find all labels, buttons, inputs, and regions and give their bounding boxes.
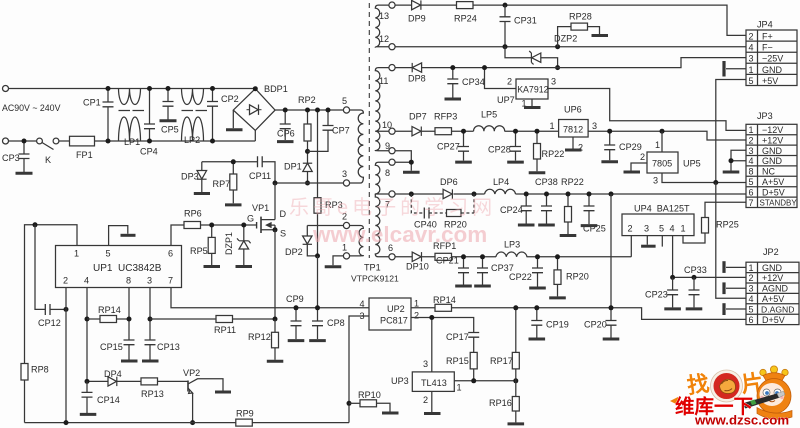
svg-text:5: 5: [659, 224, 664, 234]
wire line 6: [395, 256, 631, 258]
svg-text:BDP1: BDP1: [264, 84, 288, 94]
wire JP3 pin7 standby to RP25: [705, 202, 746, 217]
diode DP10: [406, 252, 429, 271]
ground JP2 pin1 chassis bar: [724, 261, 746, 273]
svg-text:CP15: CP15: [100, 342, 123, 352]
svg-text:RP12: RP12: [248, 332, 271, 342]
svg-text:1: 1: [749, 263, 754, 273]
svg-text:A+5V: A+5V: [762, 294, 784, 304]
wire line 7 D+5V: [395, 193, 746, 195]
wire D+5V vertical link: [610, 194, 612, 308]
svg-text:DP3: DP3: [181, 172, 199, 182]
resistor RP16: [489, 381, 519, 423]
diode DP7: [409, 112, 427, 136]
resistor RP14 second: [411, 295, 746, 319]
junction pin8 node: [409, 160, 414, 165]
junction JP3 gnd: [729, 158, 734, 163]
svg-text:GND: GND: [762, 146, 783, 156]
svg-text:VP1: VP1: [252, 203, 269, 213]
svg-text:−25V: −25V: [762, 54, 783, 64]
junction VP2 emitter rail: [190, 420, 195, 425]
junction RP11-RP12-source: [273, 317, 278, 322]
svg-text:−12V: −12V: [762, 125, 783, 135]
ground RP7: [225, 203, 242, 206]
resistor RP7: [213, 162, 237, 204]
svg-text:2: 2: [749, 273, 754, 283]
svg-text:TL413: TL413: [421, 378, 447, 388]
wire fuse to CP1: [95, 140, 256, 142]
resistor RP3: [314, 110, 343, 256]
ground CP37: [474, 285, 491, 288]
svg-text:4: 4: [749, 43, 754, 53]
svg-text:3: 3: [147, 276, 152, 286]
junction CP3: [22, 139, 27, 144]
capacitor CP4: [140, 89, 158, 157]
secondary winding 7-6: [375, 194, 389, 257]
svg-text:RP10: RP10: [358, 390, 381, 400]
ground RP28: [592, 34, 609, 37]
resistor RP28: [558, 12, 600, 47]
wire UP1 pin2: [65, 288, 67, 423]
ground UP1 pin5: [121, 234, 136, 237]
secondary winding 8-7: [375, 162, 389, 194]
junction CP4 bottom: [147, 139, 152, 144]
node terminal 7: [389, 191, 395, 197]
junction CP1 bottom: [106, 139, 111, 144]
svg-text:DP2: DP2: [285, 247, 303, 257]
capacitor CP15: [100, 340, 135, 360]
svg-text:5: 5: [106, 249, 111, 259]
node terminal 1: [343, 253, 349, 259]
capacitor CP13: [145, 340, 180, 360]
capacitor CP31: [500, 5, 537, 47]
svg-text:CP7: CP7: [332, 126, 350, 136]
svg-text:RP7: RP7: [213, 179, 231, 189]
resistor RP20 snubber: [429, 194, 474, 230]
resistor RP12: [248, 319, 279, 360]
junction CP19: [534, 305, 539, 310]
watermark dzsc logo group: [670, 366, 792, 428]
svg-text:RP17: RP17: [490, 356, 513, 366]
capacitor CP7: [308, 110, 350, 151]
svg-text:CP14: CP14: [97, 395, 120, 405]
mascot: [742, 366, 793, 419]
svg-text:UP5: UP5: [683, 159, 701, 169]
node AC input terminal L: [3, 86, 9, 92]
wire UP1 pin3: [149, 288, 151, 341]
junction pin4-RP14: [85, 317, 90, 322]
wire A+5V vertical to JP2 pin4: [716, 183, 746, 299]
node terminal 3: [343, 180, 349, 186]
svg-text:JP3: JP3: [757, 111, 773, 121]
ground CP34: [445, 98, 462, 101]
svg-text:4: 4: [749, 156, 754, 166]
svg-text:A+5V: A+5V: [762, 177, 784, 187]
svg-text:LP2: LP2: [184, 135, 200, 145]
junction KA7912 pin2: [482, 65, 487, 70]
zener DZP1: [224, 225, 251, 265]
diode DP1: [284, 151, 312, 183]
bridge rectifier BDP1: [233, 84, 287, 130]
wire terminal 9 and 8 to ground: [395, 151, 411, 171]
svg-text:CP20: CP20: [584, 320, 607, 330]
resistor RP10: [349, 390, 390, 412]
ground CP8: [309, 339, 326, 342]
capacitor CP3: [2, 141, 30, 172]
svg-text:K: K: [45, 155, 51, 165]
transistor Q2 VP2: [183, 368, 223, 423]
diode DP8: [408, 63, 426, 84]
junction CP20: [609, 305, 614, 310]
svg-text:CP31: CP31: [514, 16, 537, 26]
ground bridge negative: [226, 110, 243, 130]
junction VP1 source: [273, 227, 278, 232]
wire UP1 pin6 to gate network: [171, 225, 184, 246]
svg-text:CP21: CP21: [436, 256, 459, 266]
svg-text:CP33: CP33: [684, 265, 707, 275]
ground CP22: [529, 287, 546, 290]
junction DP1 top node: [305, 149, 310, 154]
resistor RP15: [446, 352, 477, 380]
ground RP22: [529, 171, 546, 174]
ground CP5: [160, 119, 177, 122]
svg-text:DZP1: DZP1: [224, 232, 234, 255]
junction D+5V feed vertical top: [609, 192, 614, 197]
junction RP10 left: [347, 401, 352, 406]
svg-text:RP8: RP8: [31, 365, 49, 375]
svg-text:GND: GND: [762, 65, 783, 75]
svg-text:GND: GND: [762, 263, 783, 273]
resistor RFP1: [433, 241, 456, 260]
junction CP6: [283, 108, 288, 113]
svg-text:CP17: CP17: [446, 332, 469, 342]
junction CP1 top: [106, 86, 111, 91]
svg-text:STANDBY: STANDBY: [760, 199, 798, 208]
transistor VP1 MOSFET: [247, 183, 287, 239]
wire KA7912 pin3 -12V out: [548, 89, 746, 131]
ground JP4 pin1 chassis bar: [724, 61, 746, 77]
svg-text:FP1: FP1: [76, 150, 93, 160]
svg-text:TP1: TP1: [364, 263, 381, 273]
junction CP31 bottom: [503, 44, 508, 49]
junction RP22 second: [566, 192, 571, 197]
svg-text:12: 12: [379, 34, 389, 44]
junction pin1 node: [33, 222, 38, 227]
junction CP31 top: [503, 3, 508, 8]
svg-text:4: 4: [360, 299, 365, 309]
svg-text:CP1: CP1: [83, 98, 101, 108]
junction DP2-RP3 node: [315, 253, 320, 258]
secondary winding 13-12: [375, 5, 389, 47]
connector JP3: [746, 111, 797, 208]
resistor RP22 second: [561, 177, 584, 234]
capacitor CP37: [477, 257, 514, 285]
svg-text:RP28: RP28: [569, 12, 592, 22]
resistor RP13: [141, 378, 188, 399]
junction CP23: [670, 275, 675, 280]
fuse FP1: [70, 136, 95, 160]
junction CP11 right on line3: [273, 181, 278, 186]
wire JP3 GND pins 3-4: [731, 150, 746, 170]
ground CP23: [664, 307, 681, 310]
svg-text:UP6: UP6: [564, 105, 582, 115]
svg-text:2: 2: [423, 395, 428, 405]
primary winding 5-3: [350, 110, 364, 183]
junction CP2 bottom: [210, 139, 215, 144]
junction 7805 input: [660, 129, 665, 134]
svg-text:找: 找: [685, 371, 710, 399]
svg-text:1: 1: [749, 125, 754, 135]
svg-text:1: 1: [457, 383, 462, 393]
svg-text:VP2: VP2: [183, 368, 200, 378]
ground JP2 pin5 chassis bar: [724, 303, 746, 315]
junction snubber right: [472, 192, 477, 197]
svg-text:D+5V: D+5V: [762, 187, 785, 197]
junction snubber left: [409, 192, 414, 197]
junction CP25: [587, 192, 592, 197]
svg-text:RP15: RP15: [446, 356, 469, 366]
capacitor CP17: [446, 332, 479, 352]
capacitor CP29: [604, 131, 642, 160]
svg-text:3: 3: [592, 121, 597, 131]
svg-text:3: 3: [749, 146, 754, 156]
svg-text:DP8: DP8: [408, 74, 426, 84]
ground UP5 pin2: [624, 163, 648, 172]
wire CP12 vertical: [35, 225, 45, 310]
junction A+5V node: [713, 180, 718, 185]
resistor RP17: [490, 308, 519, 381]
wire UP1 pin5 to ground: [109, 226, 128, 246]
svg-text:4: 4: [670, 224, 675, 234]
junction CP8: [315, 305, 320, 310]
svg-text:3: 3: [423, 359, 428, 369]
capacitor CP24: [500, 194, 532, 224]
regulator UP5 7805: [640, 131, 701, 185]
ground CP24: [518, 224, 535, 227]
inductor LP3: [496, 240, 527, 257]
junction pin2 rail: [64, 420, 69, 425]
secondary winding 11-10: [375, 68, 389, 132]
wire line 12 F-: [395, 46, 746, 48]
ground CP14: [80, 413, 97, 416]
resistor RP9: [236, 409, 254, 427]
node terminal 2: [343, 222, 349, 228]
junction CP27: [461, 129, 466, 134]
diode DP4: [87, 369, 141, 386]
svg-text:+12V: +12V: [762, 135, 783, 145]
ground UP6 pin2: [565, 137, 582, 150]
diode DP6: [440, 177, 458, 199]
svg-text:JP2: JP2: [763, 247, 779, 257]
junction DZP1 top gate node: [241, 223, 246, 228]
connector JP4: [746, 20, 797, 86]
svg-text:D: D: [280, 209, 287, 219]
svg-text:LP5: LP5: [481, 110, 497, 120]
svg-text:8: 8: [749, 167, 754, 177]
svg-text:RFP3: RFP3: [434, 112, 457, 122]
junction CP28: [513, 129, 518, 134]
junction CP37: [480, 254, 485, 259]
svg-text:11: 11: [379, 76, 388, 86]
ground aux winding: [325, 265, 342, 268]
wire UP1 pin4: [86, 288, 88, 382]
junction RP2 top: [305, 108, 310, 113]
ground CP21: [455, 285, 472, 288]
svg-text:8: 8: [385, 168, 390, 178]
svg-text:3: 3: [342, 169, 347, 179]
svg-text:CP27: CP27: [437, 142, 460, 152]
svg-text:DZP2: DZP2: [554, 34, 577, 44]
diode DP9: [408, 0, 426, 23]
svg-text:UP1 UC3842B: UP1 UC3842B: [93, 263, 162, 274]
svg-text:4: 4: [749, 294, 754, 304]
capacitor CP34: [447, 68, 484, 98]
junction RP5 top: [209, 223, 214, 228]
svg-text:1: 1: [414, 299, 419, 309]
node terminal 13: [389, 2, 395, 8]
svg-text:G: G: [247, 214, 254, 224]
junction RP22 top: [535, 129, 540, 134]
svg-text:CP9: CP9: [286, 294, 304, 304]
op-amp U4 reset IC UP4 BA125T: [622, 204, 694, 236]
resistor RP20 second: [554, 257, 589, 297]
svg-text:S: S: [280, 229, 286, 239]
svg-text:1: 1: [550, 121, 555, 131]
junction CP12 right: [64, 307, 69, 312]
svg-text:CP2: CP2: [221, 94, 239, 104]
ground CP19: [529, 338, 546, 341]
capacitor CP40 snubber: [411, 194, 424, 213]
svg-text:CP22: CP22: [509, 272, 532, 282]
capacitor CP33: [684, 265, 707, 307]
junction CP22: [535, 254, 540, 259]
svg-text:CP24: CP24: [500, 205, 523, 215]
svg-text:www.elcavr.com: www.elcavr.com: [312, 222, 487, 247]
wire top AC line: [9, 88, 256, 90]
ground JP3: [723, 171, 740, 174]
svg-text:LP3: LP3: [504, 240, 520, 250]
wire RP3 node down to VCC rail: [317, 256, 319, 308]
wire bottom AC to bridge: [254, 130, 256, 141]
svg-text:JP4: JP4: [757, 20, 773, 30]
svg-text:1: 1: [749, 65, 754, 75]
wire switch to fuse: [59, 140, 70, 142]
svg-text:CP23: CP23: [645, 290, 668, 300]
svg-text:VTPCK9121: VTPCK9121: [351, 274, 399, 284]
svg-text:5: 5: [342, 96, 347, 106]
svg-text:8: 8: [126, 276, 131, 286]
capacitor CP9: [286, 294, 304, 339]
ground CP29: [601, 160, 618, 163]
svg-text:RP22: RP22: [542, 149, 565, 159]
svg-text:LP1: LP1: [124, 137, 140, 147]
ground RP16: [508, 422, 525, 425]
junction pin8-RP14-CP15: [127, 317, 132, 322]
ground RP5: [204, 265, 221, 268]
wire TL413 pin1: [454, 380, 516, 382]
node terminal 12: [389, 44, 395, 50]
capacitor CP19: [531, 308, 568, 338]
junction CP2 top: [210, 86, 215, 91]
ground RP20 second: [549, 296, 566, 299]
wire rail up to UP2 pin3: [349, 316, 369, 423]
wire UP1 pin1 comp: [25, 225, 78, 364]
svg-text:CP28: CP28: [488, 145, 511, 155]
logo arrow: [670, 397, 678, 405]
ground CP9: [288, 339, 305, 342]
inductor LP2 common-mode choke: [182, 89, 208, 146]
junction CP34: [450, 65, 455, 70]
junction RP20 second: [555, 254, 560, 259]
svg-text:3: 3: [749, 54, 754, 64]
svg-text:CP3: CP3: [2, 153, 20, 163]
node terminal 8: [389, 159, 395, 165]
wire UP4 pin5 stub: [661, 236, 663, 247]
svg-text:6: 6: [749, 187, 754, 197]
junction CP21: [461, 254, 466, 259]
svg-text:CP19: CP19: [546, 320, 569, 330]
junction RP3 top: [315, 108, 320, 113]
svg-text:10: 10: [382, 120, 392, 130]
svg-text:UP2: UP2: [387, 304, 405, 314]
inductor LP4: [485, 177, 516, 194]
transformer TP1 VTPCK9121: [325, 2, 399, 284]
node terminal 11: [389, 65, 395, 71]
wire UP4 pin4 to +12V: [672, 236, 674, 278]
ground DP3: [194, 192, 210, 195]
capacitor CP1: [83, 89, 114, 142]
svg-text:9: 9: [385, 141, 390, 151]
svg-text:CP4: CP4: [140, 147, 158, 157]
wire terminal 2 to DP2: [307, 225, 343, 227]
svg-text:KA7912: KA7912: [517, 85, 548, 95]
svg-text:RP9: RP9: [236, 409, 254, 419]
ground UP4 pin3: [641, 236, 656, 247]
ground CP15: [121, 360, 138, 363]
capacitor CP25: [583, 194, 606, 234]
secondary winding 10-9: [375, 131, 389, 151]
node terminal 10: [389, 128, 395, 134]
svg-text:UP4 BA125T: UP4 BA125T: [634, 204, 690, 214]
ground CP28: [507, 161, 524, 164]
inductor LP5: [474, 110, 505, 132]
svg-text:NC: NC: [762, 167, 775, 177]
resistor RP24: [454, 2, 477, 24]
ground CP33: [686, 307, 703, 310]
ground CP3: [16, 172, 33, 175]
wire bottom AC line left: [9, 140, 37, 142]
svg-text:1: 1: [681, 224, 686, 234]
inductor LP1 common-mode choke: [119, 89, 145, 148]
regulator UP7 KA7912: [497, 77, 556, 109]
ground VP2 collector: [215, 391, 231, 394]
ground RP12: [267, 360, 284, 363]
svg-text:RP14: RP14: [433, 295, 456, 305]
resistor RP2: [298, 95, 316, 151]
wire UP1 pin7 VCC: [171, 288, 369, 308]
svg-text:2: 2: [749, 135, 754, 145]
junction CP38: [544, 192, 549, 197]
resistor RP25: [683, 218, 739, 244]
op-amp U2 optocoupler UP2 PC817: [360, 298, 420, 330]
wire UP2 pin2 node: [411, 318, 474, 372]
svg-text:3: 3: [749, 284, 754, 294]
svg-text:CP11: CP11: [249, 171, 271, 181]
svg-text:RP5: RP5: [190, 246, 208, 256]
wire DC bus: [275, 109, 343, 111]
junction CP29: [607, 129, 612, 134]
resistor RP14: [87, 305, 129, 323]
